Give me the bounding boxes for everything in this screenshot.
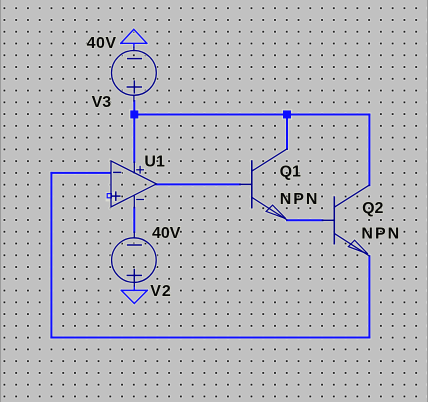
svg-text:V3: V3	[92, 94, 112, 111]
svg-text:NPN: NPN	[361, 225, 401, 242]
svg-text:V2: V2	[150, 283, 172, 300]
svg-text:40V: 40V	[87, 35, 117, 52]
svg-text:40V: 40V	[152, 225, 181, 242]
svg-text:Q1: Q1	[280, 164, 301, 181]
svg-text:Q2: Q2	[362, 200, 383, 217]
svg-text:U1: U1	[144, 153, 165, 170]
svg-text:NPN: NPN	[280, 191, 320, 208]
